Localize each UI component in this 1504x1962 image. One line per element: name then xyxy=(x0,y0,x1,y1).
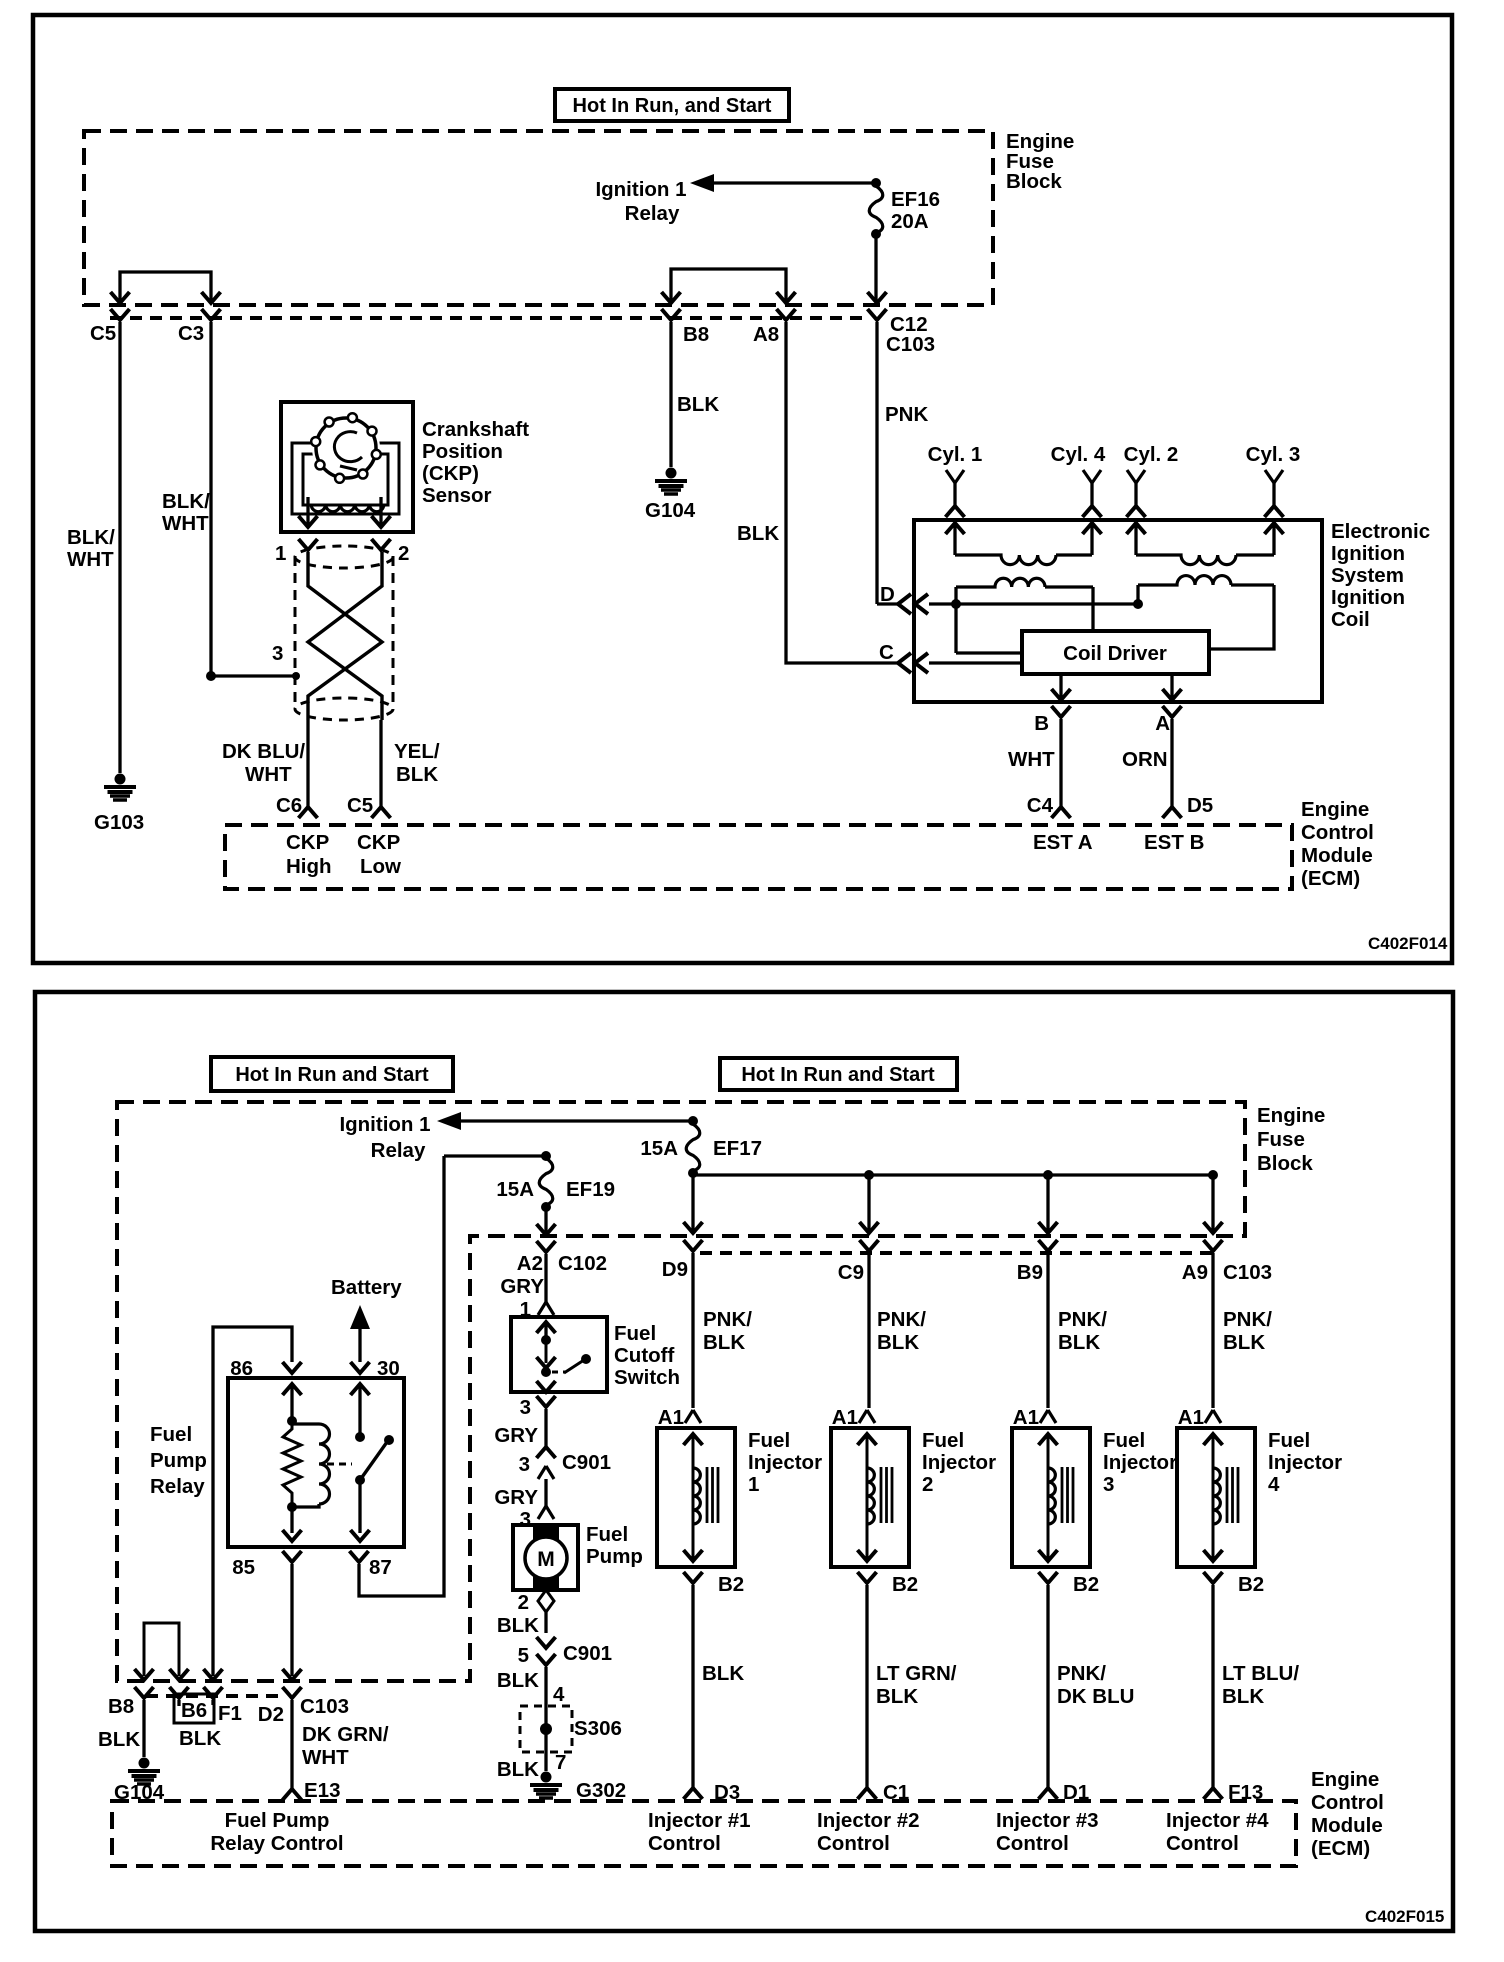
label: Fuel Pump xyxy=(586,1523,643,1568)
svg-text:BLK: BLK xyxy=(877,1331,919,1354)
wire bus to A9 xyxy=(1204,1175,1223,1233)
wire CKP High DK BLU/WHT xyxy=(222,720,308,807)
connector dashed line C103 (panel2 right) xyxy=(700,1251,1220,1255)
svg-text:Injector #2: Injector #2 xyxy=(817,1809,920,1832)
svg-text:Injector: Injector xyxy=(748,1451,822,1474)
svg-text:F1: F1 xyxy=(218,1702,242,1725)
label: Crankshaft Position (CKP) Sensor xyxy=(422,418,529,507)
svg-text:Injector: Injector xyxy=(1268,1451,1342,1474)
svg-text:BLK: BLK xyxy=(497,1669,539,1692)
svg-text:2: 2 xyxy=(518,1591,529,1614)
svg-text:20A: 20A xyxy=(891,210,929,233)
svg-text:BLK: BLK xyxy=(497,1758,539,1781)
connector A xyxy=(1155,706,1181,807)
wire label WHT xyxy=(1008,748,1055,771)
svg-text:A1: A1 xyxy=(1178,1406,1204,1429)
svg-text:(CKP): (CKP) xyxy=(422,462,479,485)
svg-text:BLK: BLK xyxy=(703,1331,745,1354)
fuse EF19 15A xyxy=(496,1158,615,1212)
CKP reluctor wheel xyxy=(311,413,381,483)
svg-text:Fuel Pump: Fuel Pump xyxy=(225,1809,330,1832)
wire label PNK/BLK (C9) xyxy=(877,1308,926,1354)
svg-text:Injector: Injector xyxy=(1103,1451,1177,1474)
svg-text:Ignition: Ignition xyxy=(1331,542,1405,565)
svg-text:Pump: Pump xyxy=(150,1449,207,1472)
svg-text:E13: E13 xyxy=(304,1779,340,1802)
svg-text:DK BLU: DK BLU xyxy=(1057,1685,1134,1708)
svg-text:LT BLU/: LT BLU/ xyxy=(1222,1662,1299,1685)
coil internal wire C xyxy=(929,661,1022,664)
svg-text:PNK/: PNK/ xyxy=(1058,1308,1107,1331)
ECM box panel2 (dashed) xyxy=(112,1801,1296,1866)
svg-text:86: 86 xyxy=(230,1357,253,1380)
fuel injector 4 xyxy=(1177,1428,1255,1567)
connector C901 pin 3 xyxy=(494,1447,611,1531)
svg-text:BLK: BLK xyxy=(396,763,438,786)
svg-text:ORN: ORN xyxy=(1122,748,1168,771)
wire label PNK/BLK (A9) xyxy=(1223,1308,1272,1354)
connector B2 (injector 1) xyxy=(684,1572,745,1789)
svg-text:15A: 15A xyxy=(640,1137,678,1160)
label: Engine Fuse Block xyxy=(1006,130,1074,193)
svg-text:C5: C5 xyxy=(90,322,116,345)
svg-text:C103: C103 xyxy=(886,333,935,356)
svg-text:Cyl. 1: Cyl. 1 xyxy=(928,443,983,466)
connector A2 C102 xyxy=(500,1241,607,1321)
svg-text:Fuel: Fuel xyxy=(922,1429,964,1452)
svg-text:B2: B2 xyxy=(892,1573,918,1596)
jumper B8 B6 xyxy=(135,1623,189,1680)
connector D9 xyxy=(662,1240,703,1408)
connector E13 xyxy=(283,1779,341,1802)
fuel cutoff switch S1 box xyxy=(511,1317,607,1392)
svg-text:CKP: CKP xyxy=(286,831,329,854)
svg-text:Fuel: Fuel xyxy=(748,1429,790,1452)
svg-text:B8: B8 xyxy=(683,323,709,346)
ground G104 panel2 xyxy=(114,1758,165,1805)
wire bus to C9 xyxy=(860,1175,879,1233)
panel 2 border xyxy=(35,992,1453,1931)
Cyl. 1 terminal xyxy=(928,443,983,517)
connector C5 (ECM) xyxy=(347,794,391,818)
fuel injector 2 xyxy=(831,1428,909,1567)
svg-text:1: 1 xyxy=(275,542,286,565)
label box: Hot In Run and Start (left) xyxy=(211,1057,453,1091)
svg-text:2: 2 xyxy=(922,1473,933,1496)
fuel injector 3 pin A1 xyxy=(1013,1406,1056,1429)
svg-text:DK GRN/: DK GRN/ xyxy=(302,1723,389,1746)
wire EF19 feed xyxy=(444,1151,551,1161)
svg-text:3: 3 xyxy=(519,1453,530,1476)
connector B9 xyxy=(1017,1240,1058,1408)
wire relay 85 to D2 xyxy=(283,1564,302,1680)
connector pin 2 xyxy=(372,539,410,565)
svg-text:Cutoff: Cutoff xyxy=(614,1344,675,1367)
battery feed arrow xyxy=(331,1276,402,1362)
figure id C402F015 xyxy=(1365,1907,1444,1926)
relay pin 85 xyxy=(232,1507,301,1579)
svg-text:WHT: WHT xyxy=(162,512,209,535)
label: Fuel Pump Relay xyxy=(150,1423,207,1498)
svg-text:Injector: Injector xyxy=(922,1451,996,1474)
connector B8 xyxy=(662,309,710,346)
wire label PNK xyxy=(885,403,928,426)
svg-text:A1: A1 xyxy=(1013,1406,1039,1429)
svg-text:Relay: Relay xyxy=(150,1475,205,1498)
svg-text:Switch: Switch xyxy=(614,1366,680,1389)
connector B2 (injector 4) xyxy=(1204,1572,1265,1789)
svg-text:DK BLU/: DK BLU/ xyxy=(222,740,305,763)
figure id C402F014 xyxy=(1368,934,1448,953)
svg-text:WHT: WHT xyxy=(1008,748,1055,771)
svg-text:87: 87 xyxy=(369,1556,392,1579)
label: Fuel Injector 3 xyxy=(1103,1429,1177,1496)
svg-text:Block: Block xyxy=(1006,170,1062,193)
svg-text:BLK: BLK xyxy=(737,522,779,545)
connector B2 (injector 3) xyxy=(1039,1572,1100,1789)
svg-text:D5: D5 xyxy=(1187,794,1213,817)
svg-text:Cyl. 4: Cyl. 4 xyxy=(1051,443,1106,466)
svg-text:15A: 15A xyxy=(496,1178,534,1201)
svg-text:4: 4 xyxy=(553,1683,565,1706)
label: Fuel Injector 2 xyxy=(922,1429,996,1496)
wire D2 DK GRN/WHT to E13 xyxy=(292,1700,389,1789)
label: CKP High xyxy=(286,831,332,878)
svg-text:BLK: BLK xyxy=(677,393,719,416)
svg-text:Fuel: Fuel xyxy=(150,1423,192,1446)
svg-text:A9: A9 xyxy=(1182,1261,1208,1284)
label: Engine Control Module ECM panel2 xyxy=(1311,1768,1384,1860)
twisted pair wires xyxy=(308,552,382,720)
svg-text:2: 2 xyxy=(398,542,409,565)
svg-text:(ECM): (ECM) xyxy=(1311,1837,1370,1860)
svg-text:Engine: Engine xyxy=(1311,1768,1379,1791)
svg-text:3: 3 xyxy=(272,642,283,665)
wire relay 87 to EF19 feed xyxy=(359,1156,444,1596)
svg-text:GRY: GRY xyxy=(494,1486,538,1509)
svg-text:85: 85 xyxy=(232,1556,255,1579)
connector D1 xyxy=(1039,1781,1090,1804)
label: Injector #4 Control xyxy=(1166,1809,1269,1855)
label box: Hot In Run and Start (right) xyxy=(720,1058,957,1090)
svg-text:A2: A2 xyxy=(517,1252,543,1275)
svg-text:PNK/: PNK/ xyxy=(877,1308,926,1331)
ECM box panel1 (dashed) xyxy=(225,825,1292,889)
svg-text:High: High xyxy=(286,855,332,878)
svg-text:CKP: CKP xyxy=(357,831,400,854)
svg-text:Injector #3: Injector #3 xyxy=(996,1809,1099,1832)
svg-text:C103: C103 xyxy=(300,1695,349,1718)
bracket wire B8 A8 xyxy=(662,269,796,303)
wire label (C1) xyxy=(876,1662,957,1708)
svg-text:C6: C6 xyxy=(276,794,302,817)
CKP sensor output arrows xyxy=(299,497,391,527)
svg-text:Relay Control: Relay Control xyxy=(210,1832,343,1855)
injector feed bus xyxy=(693,1170,1218,1180)
svg-text:WHT: WHT xyxy=(302,1746,349,1769)
svg-text:WHT: WHT xyxy=(67,548,114,571)
svg-text:BLK: BLK xyxy=(497,1614,539,1637)
relay pin 86 xyxy=(230,1357,301,1421)
connector dashed line C103 (panel1) xyxy=(110,316,866,320)
bracket wire C5 C3 xyxy=(111,272,221,303)
engine fuse block panel2 (dashed) xyxy=(117,1102,1245,1681)
svg-text:Fuel: Fuel xyxy=(586,1523,628,1546)
connector B6 boxed xyxy=(170,1687,215,1723)
svg-text:C4: C4 xyxy=(1027,794,1054,817)
svg-text:7: 7 xyxy=(555,1751,566,1774)
svg-text:G302: G302 xyxy=(576,1779,626,1802)
svg-text:EST B: EST B xyxy=(1144,831,1204,854)
connector C3 xyxy=(178,309,221,345)
svg-text:Ignition 1: Ignition 1 xyxy=(595,178,686,201)
svg-text:B2: B2 xyxy=(1238,1573,1264,1596)
svg-text:Control: Control xyxy=(1166,1832,1239,1855)
svg-text:BLK: BLK xyxy=(1058,1331,1100,1354)
engine fuse block (dashed) xyxy=(84,131,993,305)
panel 1 border xyxy=(33,15,1452,963)
svg-text:Control: Control xyxy=(817,1832,890,1855)
svg-text:BLK: BLK xyxy=(1223,1331,1265,1354)
wire label PNK/BLK (B9) xyxy=(1058,1308,1107,1354)
label: CKP Low xyxy=(357,831,401,878)
wire B8 BLK to G104 xyxy=(671,322,719,467)
svg-text:BLK: BLK xyxy=(98,1728,140,1751)
svg-text:BLK: BLK xyxy=(1222,1685,1264,1708)
svg-text:GRY: GRY xyxy=(494,1424,538,1447)
wire label (D3) xyxy=(702,1662,744,1685)
svg-text:B2: B2 xyxy=(718,1573,744,1596)
fuel cutoff switch pin 1 xyxy=(538,1302,554,1315)
svg-text:C3: C3 xyxy=(178,322,204,345)
wire label PNK/BLK (D9) xyxy=(703,1308,752,1354)
fuel injector 1 pin A1 xyxy=(658,1406,701,1429)
label: Fuel Injector 1 xyxy=(748,1429,822,1496)
svg-text:PNK: PNK xyxy=(885,403,928,426)
CKP sensor box xyxy=(281,402,413,532)
svg-text:Injector #1: Injector #1 xyxy=(648,1809,751,1832)
Cyl. 2 terminal xyxy=(1124,443,1179,517)
svg-text:EF19: EF19 xyxy=(566,1178,615,1201)
wire EF19 to A2 xyxy=(537,1207,556,1235)
svg-text:EF17: EF17 xyxy=(713,1137,762,1160)
svg-text:C9: C9 xyxy=(838,1261,864,1284)
Ignition 1 Relay feed arrow xyxy=(595,174,881,225)
primary winding left xyxy=(956,578,1093,653)
svg-text:Coil: Coil xyxy=(1331,608,1370,631)
CKP pickup coil xyxy=(311,504,384,512)
coil driver U1 xyxy=(1022,631,1209,674)
svg-text:C103: C103 xyxy=(1223,1261,1272,1284)
svg-text:1: 1 xyxy=(748,1473,759,1496)
coil internal wire D xyxy=(929,599,1143,609)
svg-text:EST A: EST A xyxy=(1033,831,1093,854)
svg-text:Block: Block xyxy=(1257,1152,1313,1175)
svg-text:Fuel: Fuel xyxy=(1103,1429,1145,1452)
svg-text:Low: Low xyxy=(360,855,401,878)
svg-text:GRY: GRY xyxy=(500,1275,544,1298)
relay switch arm xyxy=(355,1432,394,1485)
wire C5 to G103, BLK/WHT xyxy=(67,322,120,773)
label box: Hot In Run, and Start xyxy=(555,89,789,121)
svg-text:Engine: Engine xyxy=(1257,1104,1325,1127)
connector dashed line C103 (panel2 left) xyxy=(146,1694,282,1698)
splice S306 xyxy=(497,1703,622,1781)
svg-text:Fuel: Fuel xyxy=(614,1322,656,1345)
relay coil L1 xyxy=(292,1424,330,1507)
coil driver output B xyxy=(1052,674,1071,700)
svg-text:G104: G104 xyxy=(645,499,696,522)
svg-text:5: 5 xyxy=(518,1644,529,1667)
svg-text:Control: Control xyxy=(996,1832,1069,1855)
svg-text:LT GRN/: LT GRN/ xyxy=(876,1662,957,1685)
svg-text:D2: D2 xyxy=(258,1703,284,1726)
fuel pump relay K1 box xyxy=(228,1378,404,1547)
svg-text:B9: B9 xyxy=(1017,1261,1043,1284)
svg-text:(ECM): (ECM) xyxy=(1301,867,1360,890)
svg-text:Hot In Run and Start: Hot In Run and Start xyxy=(235,1064,429,1086)
svg-text:System: System xyxy=(1331,564,1404,587)
wire PNK to coil pin D xyxy=(877,602,897,605)
connector C5 xyxy=(90,309,130,345)
svg-text:Cyl. 3: Cyl. 3 xyxy=(1246,443,1301,466)
ground G104 (panel1) xyxy=(645,468,696,523)
svg-text:A1: A1 xyxy=(832,1406,858,1429)
svg-text:BLK: BLK xyxy=(702,1662,744,1685)
fuse EF16 20A xyxy=(869,186,940,239)
connector C901 pin 5 xyxy=(497,1642,612,1706)
connector B2 (injector 2) xyxy=(858,1572,919,1789)
svg-text:G103: G103 xyxy=(94,811,144,834)
svg-text:PNK/: PNK/ xyxy=(1057,1662,1106,1685)
svg-text:BLK: BLK xyxy=(876,1685,918,1708)
wire CKP Low YEL/BLK xyxy=(381,720,440,807)
Cyl. 3 terminal xyxy=(1246,443,1301,517)
svg-text:Electronic: Electronic xyxy=(1331,520,1430,543)
svg-text:PNK/: PNK/ xyxy=(1223,1308,1272,1331)
svg-text:Hot In Run, and Start: Hot In Run, and Start xyxy=(573,95,772,117)
wire label (F13) xyxy=(1222,1662,1299,1708)
wire bus to D9 xyxy=(684,1175,703,1233)
svg-text:Fuse: Fuse xyxy=(1257,1128,1305,1151)
svg-text:Module: Module xyxy=(1311,1814,1383,1837)
svg-text:Fuel: Fuel xyxy=(1268,1429,1310,1452)
fuel injector 4 pin A1 xyxy=(1178,1406,1221,1429)
primary winding right xyxy=(1138,576,1274,649)
connector A8 xyxy=(753,309,796,346)
secondary winding Cyl1-Cyl4 xyxy=(946,523,1102,565)
fuel injector 1 xyxy=(657,1428,735,1567)
svg-text:Relay: Relay xyxy=(371,1139,426,1162)
svg-text:YEL/: YEL/ xyxy=(394,740,440,763)
wire label (D1) xyxy=(1057,1662,1134,1708)
svg-text:C5: C5 xyxy=(347,794,373,817)
svg-text:Engine: Engine xyxy=(1301,798,1369,821)
svg-text:B6: B6 xyxy=(181,1699,207,1722)
wire A8 BLK to coil pin C xyxy=(737,322,897,663)
svg-text:Hot In Run and Start: Hot In Run and Start xyxy=(741,1064,935,1086)
svg-text:Cyl. 2: Cyl. 2 xyxy=(1124,443,1179,466)
secondary winding Cyl2-Cyl3 xyxy=(1127,523,1284,565)
relay coil resistor xyxy=(283,1416,301,1512)
label: Fuel Injector 4 xyxy=(1268,1429,1342,1496)
fuel injector 3 xyxy=(1012,1428,1090,1567)
connector pin 1 xyxy=(275,539,318,565)
svg-text:Module: Module xyxy=(1301,844,1373,867)
relay pin 87 xyxy=(350,1480,392,1579)
ground G302 xyxy=(530,1772,626,1803)
label: Injector #1 Control xyxy=(648,1809,751,1855)
svg-text:Control: Control xyxy=(1311,1791,1384,1814)
label: Engine Fuse Block panel2 xyxy=(1257,1104,1325,1175)
svg-text:A: A xyxy=(1155,712,1170,735)
svg-text:D9: D9 xyxy=(662,1258,688,1281)
svg-text:30: 30 xyxy=(377,1357,400,1380)
svg-text:Control: Control xyxy=(648,1832,721,1855)
svg-text:BLK/: BLK/ xyxy=(162,490,210,513)
svg-text:C402F014: C402F014 xyxy=(1368,934,1448,953)
label: Electronic Ignition System Ignition Coil xyxy=(1331,520,1430,631)
svg-text:Position: Position xyxy=(422,440,503,463)
svg-text:M: M xyxy=(537,1548,555,1571)
fuel pump motor M1 xyxy=(513,1506,578,1612)
wire label BLK (B6) xyxy=(179,1727,221,1750)
label: Injector #3 Control xyxy=(996,1809,1099,1855)
label: Injector #2 Control xyxy=(817,1809,920,1855)
ignition coil box xyxy=(914,520,1322,702)
svg-text:Battery: Battery xyxy=(331,1276,402,1299)
svg-text:C901: C901 xyxy=(563,1642,612,1665)
wire bus to B9 xyxy=(1039,1175,1058,1233)
wire relay 86 to F1 xyxy=(204,1327,293,1680)
connector B xyxy=(1034,706,1070,807)
svg-text:3: 3 xyxy=(520,1508,531,1531)
svg-text:Sensor: Sensor xyxy=(422,484,492,507)
svg-text:D: D xyxy=(880,583,895,606)
svg-text:3: 3 xyxy=(520,1396,531,1419)
wire: EF16 to C12 xyxy=(868,234,887,303)
connector F13 xyxy=(1204,1781,1264,1804)
relay pin 30 xyxy=(351,1357,400,1437)
svg-text:C102: C102 xyxy=(558,1252,607,1275)
svg-text:Injector #4: Injector #4 xyxy=(1166,1809,1269,1832)
label: Fuel Cutoff Switch xyxy=(614,1322,680,1389)
ground G103 xyxy=(94,774,144,835)
svg-text:PNK/: PNK/ xyxy=(703,1308,752,1331)
svg-text:Ignition: Ignition xyxy=(1331,586,1405,609)
coil pin C xyxy=(879,641,928,673)
wire label ORN xyxy=(1122,748,1168,771)
label: Engine Control Module ECM panel1 xyxy=(1301,798,1374,890)
svg-text:4: 4 xyxy=(1268,1473,1280,1496)
svg-text:B2: B2 xyxy=(1073,1573,1099,1596)
svg-text:Control: Control xyxy=(1301,821,1374,844)
svg-text:B8: B8 xyxy=(108,1695,134,1718)
svg-text:3: 3 xyxy=(1103,1473,1114,1496)
svg-text:Crankshaft: Crankshaft xyxy=(422,418,529,441)
wire C3 to pin3, BLK/WHT xyxy=(162,322,300,681)
svg-text:EF16: EF16 xyxy=(891,188,940,211)
connector F1 xyxy=(204,1687,242,1725)
svg-text:A8: A8 xyxy=(753,323,779,346)
connector B8 panel2 xyxy=(108,1687,154,1757)
coil pin D xyxy=(880,583,928,614)
twisted pair shield (dashed) xyxy=(295,546,393,720)
svg-text:BLK: BLK xyxy=(179,1727,221,1750)
svg-text:Relay: Relay xyxy=(625,202,680,225)
connector D5 EST B xyxy=(1144,794,1213,854)
coil driver output A xyxy=(1163,674,1182,700)
